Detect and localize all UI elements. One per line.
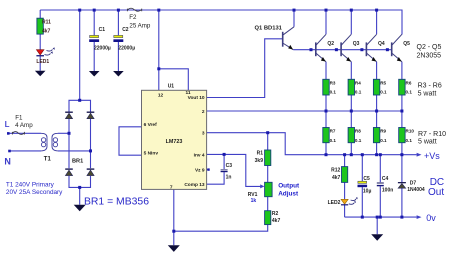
svg-text:0.1: 0.1 — [380, 138, 387, 143]
wire bridge bottom bar and ground stem — [69, 176, 91, 205]
svg-text:R11: R11 — [42, 19, 51, 25]
bridge diode D2 top-right — [87, 112, 95, 119]
svg-text:F1: F1 — [15, 115, 23, 122]
svg-text:R10: R10 — [406, 129, 415, 134]
svg-text:1k: 1k — [251, 198, 257, 204]
wire C1 column — [93, 10, 95, 71]
svg-text:Adjust: Adjust — [278, 191, 299, 198]
svg-text:2: 2 — [202, 109, 205, 115]
svg-text:5 watt: 5 watt — [418, 91, 437, 98]
bridge diode D4 bottom-right — [87, 168, 95, 175]
svg-text:0.1: 0.1 — [380, 90, 387, 95]
svg-text:BR1 = MB356: BR1 = MB356 — [84, 197, 149, 208]
svg-text:R3: R3 — [330, 80, 336, 85]
wire pin 7 to ground — [173, 189, 175, 245]
svg-text:Q2 - Q5: Q2 - Q5 — [417, 44, 442, 51]
svg-text:R7 - R10: R7 - R10 — [418, 131, 446, 138]
wire comp pin 13 to C3 — [207, 172, 225, 184]
svg-text:U1: U1 — [168, 84, 175, 90]
wire Vref to NInv bracket — [119, 127, 142, 155]
svg-text:4k7: 4k7 — [42, 28, 51, 34]
svg-text:T1: T1 — [44, 157, 52, 163]
svg-text:Out: Out — [428, 187, 444, 198]
svg-text:0.1: 0.1 — [406, 90, 413, 95]
wire C4 column — [379, 155, 381, 217]
svg-text:R7: R7 — [330, 129, 336, 134]
resistor R9 — [373, 128, 387, 143]
svg-text:Q4: Q4 — [378, 41, 385, 47]
LED1 — [36, 47, 54, 65]
svg-text:0.1: 0.1 — [406, 138, 413, 143]
svg-text:R4: R4 — [355, 80, 361, 85]
wire secondary bottom to bridge — [58, 150, 91, 152]
svg-text:LM723: LM723 — [166, 139, 183, 145]
svg-text:C1: C1 — [99, 27, 106, 33]
junction dots top rail — [78, 9, 378, 12]
wire D7 column — [401, 155, 403, 217]
bridge diode D3 bottom-left — [65, 168, 73, 175]
wire R11/LED1 column — [39, 10, 41, 71]
pin terminal Vz 9 — [207, 168, 209, 170]
svg-text:Vz 9: Vz 9 — [195, 168, 205, 174]
svg-text:R6: R6 — [406, 80, 412, 85]
junction dots +Vs rail — [325, 153, 404, 156]
wire top positive rail — [40, 10, 402, 35]
svg-text:C3: C3 — [226, 163, 233, 169]
ground below pin 7 — [168, 245, 180, 252]
wire N mains lead — [9, 150, 41, 152]
LED2 — [328, 197, 358, 206]
wire pin 3 to +Vs rail — [207, 133, 417, 155]
svg-text:R2: R2 — [272, 211, 279, 217]
svg-text:C5: C5 — [363, 176, 370, 182]
svg-text:3k9: 3k9 — [255, 158, 264, 164]
wire Vz pin 9 stub — [207, 169, 209, 171]
wire R2 bottom return — [174, 225, 268, 232]
svg-text:22000µ: 22000µ — [94, 45, 111, 51]
wire C3 top leg — [223, 154, 225, 169]
svg-text:T1 240V Primary: T1 240V Primary — [6, 181, 55, 188]
svg-text:5 watt: 5 watt — [418, 139, 437, 146]
resistor R3 — [323, 79, 337, 95]
svg-text:R3 - R6: R3 - R6 — [418, 83, 442, 90]
svg-text:Q2: Q2 — [327, 41, 334, 47]
ground below 0v rail — [371, 234, 383, 241]
svg-text:0.1: 0.1 — [330, 138, 337, 143]
svg-text:3: 3 — [202, 131, 205, 137]
op-amp regulator U1 LM723 body — [142, 84, 207, 190]
svg-text:Inv 4: Inv 4 — [194, 152, 205, 158]
svg-text:10µ: 10µ — [363, 189, 372, 195]
svg-text:L: L — [5, 120, 10, 129]
svg-text:R8: R8 — [355, 129, 361, 134]
+Vs rail end arrow — [417, 153, 422, 157]
capacitor C1 — [89, 27, 111, 52]
svg-text:Q5: Q5 — [403, 41, 410, 47]
junction dot secondary bottom — [89, 149, 92, 152]
fuse F2 — [127, 8, 151, 29]
svg-text:Q1 BD131: Q1 BD131 — [255, 25, 283, 31]
svg-text:BR1: BR1 — [72, 158, 83, 164]
wire base rail Q2-Q5 — [293, 49, 391, 51]
wire C5 column — [361, 155, 363, 217]
svg-text:N: N — [4, 157, 10, 167]
svg-text:1n: 1n — [226, 174, 232, 180]
wire 0v ground stem — [376, 217, 378, 234]
svg-text:+Vs: +Vs — [424, 151, 440, 161]
resistor R8 — [348, 128, 362, 143]
svg-text:7: 7 — [170, 184, 173, 190]
junction dot IC pin11 branch — [157, 67, 160, 70]
svg-text:2N3055: 2N3055 — [417, 52, 442, 59]
resistor R10 — [399, 128, 415, 143]
resistor R2 — [265, 211, 281, 225]
pin terminal L — [7, 132, 10, 135]
svg-text:R12: R12 — [331, 168, 340, 174]
svg-text:Output: Output — [278, 182, 300, 189]
svg-text:1N4004: 1N4004 — [407, 187, 425, 193]
wire R1 chain column — [267, 133, 269, 211]
wire bridge left column — [68, 119, 70, 169]
wire inverting input pin 4 to wiper — [207, 154, 261, 186]
wire Vout pin 10 to Q1 base — [207, 39, 283, 98]
resistor R5 — [373, 79, 387, 95]
diode D7 — [398, 180, 425, 193]
junction dots 0v rail — [361, 216, 404, 219]
potentiometer RV1 — [248, 182, 272, 204]
svg-text:R1: R1 — [257, 151, 264, 157]
ground below C2 — [113, 71, 124, 77]
svg-text:4k7: 4k7 — [332, 175, 341, 181]
wire secondary top to bridge — [58, 132, 69, 134]
wire R12/LED2 column — [344, 155, 346, 217]
wire pin 2 current-limit rail — [207, 110, 402, 112]
svg-text:12: 12 — [158, 93, 164, 99]
svg-text:LED2: LED2 — [328, 200, 341, 206]
transistor Q5 — [392, 34, 410, 61]
resistor R11 — [37, 18, 51, 34]
wire IC supply feed to pins 12 and 11 — [159, 10, 189, 90]
ground below LED1 — [35, 71, 46, 77]
svg-text:4k7: 4k7 — [272, 218, 281, 224]
svg-text:0.1: 0.1 — [330, 90, 337, 95]
resistor R12 — [331, 167, 348, 183]
svg-text:C2: C2 — [122, 27, 129, 33]
transistor Q4 — [366, 34, 384, 61]
ground below bridge — [74, 205, 86, 212]
svg-text:D7: D7 — [410, 180, 417, 186]
wire bridge right column — [90, 119, 92, 169]
svg-text:0v: 0v — [426, 213, 436, 223]
svg-text:R9: R9 — [380, 129, 386, 134]
wire Q5 collector/emitter column — [401, 62, 403, 155]
svg-text:C4: C4 — [382, 176, 389, 182]
wire C2 column — [117, 10, 119, 71]
wire L mains lead — [8, 132, 41, 134]
transistor Q2 — [316, 34, 334, 61]
bridge diode D1 top-left — [65, 112, 73, 119]
junction dot pin7 return — [172, 230, 175, 233]
svg-text:25 Amp: 25 Amp — [129, 22, 151, 29]
junction dot C3 at inv wire — [223, 153, 226, 156]
svg-text:100n: 100n — [382, 188, 393, 194]
svg-text:5 NInv: 5 NInv — [144, 150, 159, 156]
transistor Q3 — [341, 34, 359, 61]
capacitor C4 — [377, 176, 394, 194]
svg-text:0.1: 0.1 — [355, 90, 362, 95]
0v rail end arrow — [417, 215, 422, 219]
junction dot bridge bottom — [78, 186, 81, 189]
svg-text:6 Vref: 6 Vref — [144, 122, 157, 128]
svg-text:Vout 10: Vout 10 — [188, 95, 205, 101]
junction dot secondary top — [68, 132, 71, 135]
svg-text:4 Amp: 4 Amp — [15, 122, 33, 129]
wire 0v rail — [345, 216, 417, 218]
svg-text:0.1: 0.1 — [355, 138, 362, 143]
wire bridge feed — [79, 10, 81, 100]
resistor R6 — [399, 79, 413, 95]
junction dots base rail — [310, 48, 389, 51]
capacitor C3 — [221, 163, 233, 180]
transformer T1 — [41, 133, 58, 151]
pin terminal N — [8, 150, 11, 153]
wire bridge top bar — [69, 100, 91, 111]
transistor Q1 — [255, 25, 295, 49]
wire Q2 collector/emitter column — [325, 10, 327, 155]
resistor R4 — [348, 79, 362, 95]
ground below C1 — [89, 71, 100, 77]
svg-text:R5: R5 — [380, 80, 386, 85]
svg-text:LED1: LED1 — [36, 59, 49, 65]
wire Q3 collector/emitter column — [350, 10, 352, 155]
resistor R7 — [323, 128, 337, 143]
resistor R1 — [255, 150, 271, 166]
svg-text:20V 25A Secondary: 20V 25A Secondary — [6, 189, 63, 196]
svg-text:Q3: Q3 — [353, 41, 360, 47]
fuse F1 — [12, 115, 33, 135]
junction dots pin2 rail — [325, 110, 404, 113]
junction dot R1 chain at pin3 wire — [266, 131, 269, 134]
svg-text:Comp 13: Comp 13 — [184, 182, 205, 188]
svg-text:F2: F2 — [129, 14, 137, 21]
capacitor C2 — [113, 27, 135, 52]
svg-text:22000µ: 22000µ — [118, 45, 135, 51]
wire Q4 collector/emitter column — [376, 10, 378, 155]
capacitor C5 — [358, 176, 372, 195]
junction dot bridge top — [78, 99, 81, 102]
wire Q1 collector — [293, 10, 295, 27]
